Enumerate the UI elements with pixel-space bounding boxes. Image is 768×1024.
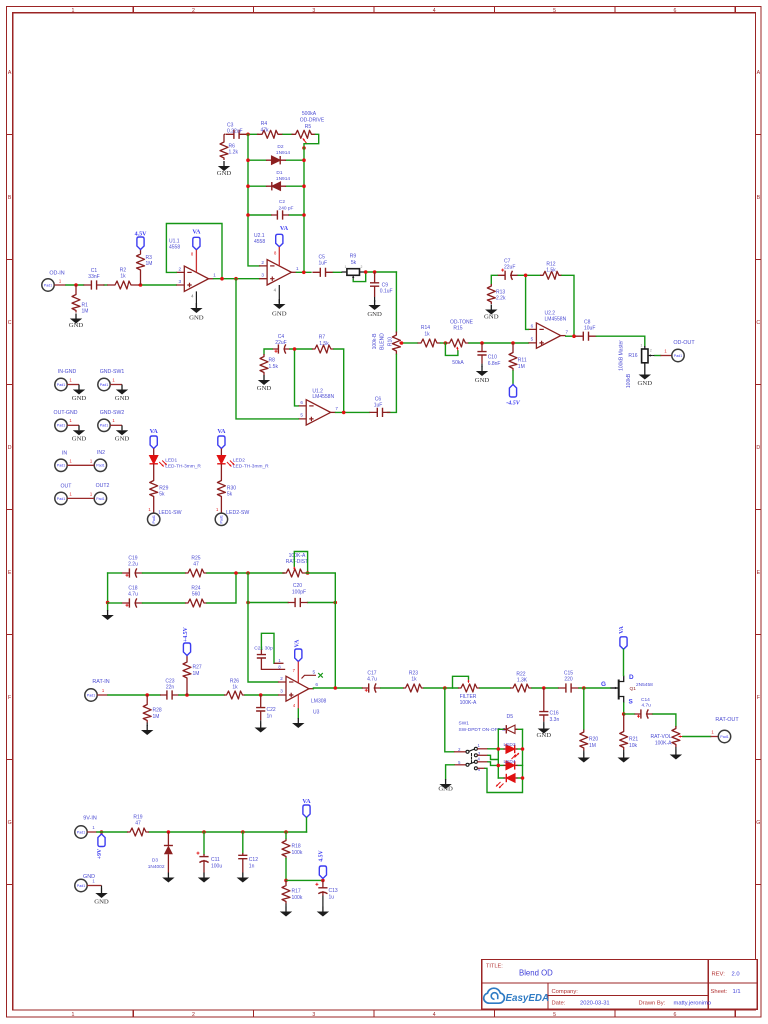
svg-text:Pad1: Pad1	[100, 424, 108, 428]
resistor R30	[217, 479, 236, 499]
wire U1.1 feedback	[166, 224, 222, 279]
svg-text:IN2: IN2	[97, 450, 105, 456]
svg-text:Sheet:: Sheet:	[711, 989, 728, 995]
ground below SW1	[438, 779, 453, 793]
resistor R18	[282, 832, 303, 859]
svg-text:OD-IN: OD-IN	[49, 271, 64, 277]
node junction C4-R7	[293, 347, 297, 351]
svg-text:6.8nF: 6.8nF	[488, 361, 501, 367]
svg-text:VA: VA	[280, 225, 289, 232]
svg-text:GND: GND	[217, 170, 232, 177]
svg-text:22uF: 22uF	[275, 340, 286, 346]
svg-text:C20: C20	[293, 583, 302, 589]
svg-text:5k: 5k	[159, 492, 165, 498]
svg-text:100K-A: 100K-A	[460, 700, 477, 706]
svg-text:C11: C11	[211, 857, 220, 863]
svg-text:2.0: 2.0	[732, 971, 740, 977]
svg-text:LED-TH-3mm_R: LED-TH-3mm_R	[165, 463, 201, 469]
node junction C22	[259, 693, 263, 697]
resistor R14	[418, 325, 441, 347]
ground below RAT-VOL	[670, 747, 682, 760]
svg-text:B: B	[8, 195, 12, 201]
op-amp U1.2	[298, 389, 338, 426]
svg-text:R11: R11	[518, 358, 527, 364]
svg-text:1.2k: 1.2k	[229, 150, 239, 156]
svg-text:1.5k: 1.5k	[546, 268, 556, 274]
svg-text:RAT-VOL: RAT-VOL	[650, 734, 671, 740]
svg-text:0.22uF: 0.22uF	[227, 129, 243, 135]
svg-text:GND: GND	[638, 380, 653, 387]
resistor R25	[185, 556, 207, 578]
wire RAT-VOL wiper to pad	[683, 729, 719, 736]
node junction LED5 row	[521, 776, 525, 780]
svg-text:5k: 5k	[351, 260, 357, 266]
node junctions D1 row	[246, 184, 306, 188]
ground for OUT-GND	[72, 425, 87, 442]
wire OD-IN to U1.1 pin3	[66, 284, 176, 286]
svg-text:1M: 1M	[153, 714, 160, 720]
ground pin U3	[292, 695, 304, 729]
wire D1 row	[248, 185, 304, 187]
svg-text:1N914: 1N914	[276, 176, 290, 182]
svg-text:100k: 100k	[292, 895, 303, 901]
potentiometer R5 OD-DRIVE	[292, 111, 325, 144]
capacitor C9	[370, 272, 393, 297]
svg-text:Blend OD: Blend OD	[519, 969, 553, 978]
svg-text:D: D	[756, 445, 760, 451]
power flag +9V	[97, 834, 105, 859]
wire R23 to FILTER	[424, 687, 458, 689]
svg-text:Pad1: Pad1	[220, 515, 224, 523]
resistor R8	[260, 354, 278, 375]
svg-text:C16: C16	[550, 711, 559, 717]
svg-text:1k: 1k	[411, 677, 417, 683]
ground pin U2.1	[272, 285, 287, 318]
wire C9 node down to R10	[395, 272, 397, 332]
ground below R21	[618, 750, 630, 763]
svg-text:C21 30p: C21 30p	[254, 645, 273, 651]
node junction R28	[145, 693, 149, 697]
wire source row	[624, 714, 676, 727]
wire R18 to divider node	[285, 859, 287, 881]
svg-text:220: 220	[564, 677, 573, 683]
power flag 4.5V mid	[319, 849, 327, 878]
svg-text:5: 5	[300, 412, 303, 417]
node junction R3	[139, 283, 143, 287]
svg-text:100k: 100k	[292, 850, 303, 856]
pad OD-OUT	[672, 340, 696, 362]
wire branch to U1.2 pin5	[236, 279, 298, 419]
ground pin U1.1	[189, 291, 204, 321]
svg-text:1M: 1M	[518, 364, 525, 370]
wire D2 row	[248, 159, 304, 161]
svg-text:Pad1: Pad1	[57, 497, 65, 501]
svg-text:5k: 5k	[227, 492, 233, 498]
svg-text:100kB: 100kB	[626, 373, 632, 388]
pad LED2-SW	[215, 510, 249, 526]
ground below C12	[237, 873, 249, 883]
wire pin3 jog	[477, 755, 498, 759]
svg-text:GND: GND	[115, 395, 130, 402]
svg-text:100u: 100u	[211, 863, 222, 869]
wire R16 wiper to OD-OUT	[655, 348, 672, 355]
potentiometer R10 BLEND	[372, 332, 404, 355]
svg-text:Pad1: Pad1	[57, 383, 65, 387]
svg-text:Drawn By:: Drawn By:	[639, 1000, 666, 1006]
capacitor C14	[635, 697, 653, 719]
resistor R28	[143, 695, 162, 723]
ground below R20	[578, 751, 590, 763]
svg-text:OUT: OUT	[61, 483, 73, 489]
svg-text:LED2: LED2	[233, 458, 245, 464]
resistor R20	[580, 730, 599, 751]
svg-text:3: 3	[261, 272, 264, 277]
svg-text:4.7u: 4.7u	[128, 591, 138, 597]
label SW1	[459, 721, 516, 733]
power flag 4.5V	[135, 232, 148, 250]
svg-text:2020-03-31: 2020-03-31	[580, 1000, 610, 1006]
svg-text:G: G	[601, 681, 606, 688]
svg-text:6: 6	[674, 1012, 677, 1018]
svg-text:5: 5	[553, 8, 556, 14]
svg-text:100kB Master: 100kB Master	[618, 340, 624, 371]
wire R5 wiper loop	[304, 134, 319, 148]
resistor R12	[540, 262, 562, 280]
svg-text:+4.5V: +4.5V	[183, 626, 189, 642]
svg-text:Pad1: Pad1	[87, 693, 95, 697]
pad IN	[55, 451, 73, 472]
svg-text:R27: R27	[193, 665, 202, 671]
svg-text:G: G	[756, 820, 760, 826]
ground below R1	[69, 314, 84, 330]
svg-text:LM4558N: LM4558N	[312, 394, 334, 400]
svg-text:1.5k: 1.5k	[319, 341, 329, 347]
node junction 4.5V node	[321, 879, 325, 883]
power flag VA for LED1	[150, 428, 159, 449]
svg-text:1/1: 1/1	[733, 989, 741, 995]
svg-text:100pF: 100pF	[292, 589, 306, 595]
svg-text:D: D	[629, 674, 634, 681]
resistor R29	[150, 479, 169, 499]
node junction C16	[542, 686, 546, 690]
wire VA riser	[306, 818, 308, 833]
svg-text:1k: 1k	[232, 685, 238, 691]
diode D3	[148, 832, 173, 873]
wire C20 row	[248, 602, 335, 604]
svg-text:OUT-GND: OUT-GND	[54, 410, 78, 416]
pad OD-IN	[42, 271, 66, 292]
node junction LED4 row	[497, 764, 501, 768]
svg-text:RAT-IN: RAT-IN	[92, 679, 109, 685]
svg-text:R28: R28	[153, 708, 162, 714]
svg-text:OUT2: OUT2	[96, 483, 110, 489]
node junction C10	[480, 341, 484, 345]
svg-text:7: 7	[566, 329, 569, 334]
svg-text:D: D	[8, 445, 12, 451]
svg-text:22n: 22n	[166, 684, 175, 690]
svg-text:Pad1: Pad1	[77, 884, 85, 888]
svg-text:R5: R5	[305, 124, 312, 130]
ground below R17	[280, 904, 292, 917]
svg-text:VA: VA	[294, 639, 300, 647]
node junction U2.2 out	[572, 334, 576, 338]
svg-text:6: 6	[531, 323, 534, 328]
capacitor C17	[362, 671, 381, 693]
pad OUT-GND	[54, 410, 79, 431]
svg-text:1n: 1n	[267, 713, 273, 719]
wire pin1 to LED3	[477, 748, 498, 750]
wire R9 wiper loop	[353, 272, 366, 282]
ground below C11	[198, 873, 210, 883]
ground below C13	[317, 896, 329, 917]
svg-text:Pad1: Pad1	[674, 354, 682, 358]
capacitor C19	[122, 556, 143, 578]
svg-text:7: 7	[335, 406, 338, 411]
svg-text:C13: C13	[329, 888, 338, 894]
power flag VA for U3	[293, 639, 302, 683]
svg-text:1N914: 1N914	[276, 150, 290, 156]
wire U1.2 pin6 riser	[295, 349, 299, 406]
power flag VA supply	[302, 798, 311, 818]
LED LED5	[496, 774, 523, 788]
svg-text:100K-A: 100K-A	[655, 740, 672, 746]
svg-text:4558: 4558	[254, 239, 265, 245]
wire RAT-IN to C23	[108, 694, 160, 696]
transistor Q1 2N5458	[601, 674, 653, 706]
svg-text:4.5V: 4.5V	[319, 849, 325, 861]
capacitor C20	[288, 583, 308, 607]
capacitor C16	[539, 688, 559, 723]
node junction R24 jog	[234, 571, 238, 575]
svg-text:Date:: Date:	[552, 1000, 566, 1006]
svg-text:D1: D1	[276, 170, 282, 176]
wire R15 wiper loop	[445, 343, 458, 355]
svg-text:R17: R17	[292, 889, 301, 895]
power flag +4.5V	[183, 626, 191, 655]
pad RAT-IN	[85, 679, 110, 701]
pad GND-SW2	[98, 410, 125, 431]
pad IN2	[90, 450, 107, 471]
svg-text:1M: 1M	[193, 671, 200, 677]
svg-text:4: 4	[433, 1012, 436, 1018]
svg-text:3: 3	[280, 689, 283, 694]
wire R24 jog up	[207, 573, 236, 603]
wire Q1 source down	[623, 703, 625, 714]
wire R14 to R15	[441, 342, 447, 344]
svg-text:47: 47	[135, 821, 141, 827]
svg-text:B: B	[757, 195, 761, 201]
svg-text:GND: GND	[367, 311, 382, 318]
svg-text:D2: D2	[277, 144, 283, 150]
capacitor C12	[238, 832, 258, 873]
svg-text:GND-SW2: GND-SW2	[100, 410, 125, 416]
node junction C11	[202, 830, 206, 834]
node junction C12	[241, 830, 245, 834]
svg-text:VA: VA	[619, 625, 625, 633]
svg-text:GND: GND	[257, 385, 272, 392]
svg-text:R9: R9	[350, 254, 357, 260]
wire FILTER to R22	[480, 687, 510, 689]
wire C19 to R25	[108, 572, 185, 574]
resistor R17	[282, 880, 303, 903]
svg-text:10k: 10k	[629, 743, 638, 749]
svg-text:IN-GND: IN-GND	[58, 369, 77, 375]
pad 9V-IN	[75, 816, 97, 839]
LED LED4	[498, 759, 522, 770]
pad OUT2	[90, 483, 110, 505]
LED LED3	[498, 742, 522, 759]
ground below C10	[475, 364, 490, 384]
svg-text:2N5458: 2N5458	[636, 682, 653, 688]
svg-text:E: E	[757, 570, 761, 576]
svg-text:1N4002: 1N4002	[148, 864, 165, 870]
svg-text:VA: VA	[192, 229, 201, 236]
node junction R11	[511, 341, 515, 345]
svg-text:GND: GND	[272, 311, 287, 318]
capacitor C11	[197, 832, 223, 873]
svg-text:1M: 1M	[146, 261, 153, 267]
power flag VA for U2.1	[274, 225, 289, 266]
svg-text:47k: 47k	[260, 127, 269, 133]
svg-text:2: 2	[361, 265, 363, 269]
wire C7 to R12	[518, 274, 540, 276]
svg-text:C12: C12	[249, 857, 258, 863]
pin 5 no-connect U3	[302, 673, 323, 679]
svg-text:LED3: LED3	[504, 742, 516, 748]
ground below C9	[367, 297, 382, 318]
power flag VA for LED2	[217, 428, 226, 449]
wire LED box right rail	[522, 729, 524, 778]
capacitor C1	[84, 268, 105, 290]
wire RAT fb left rail	[107, 573, 109, 610]
wire R30 to pad	[216, 499, 221, 514]
svg-text:C: C	[756, 320, 760, 326]
resistor R26	[224, 678, 245, 699]
wire OUT to OUT2	[67, 497, 94, 499]
node junction R15 left	[444, 341, 448, 345]
svg-text:matty.jeronimo: matty.jeronimo	[674, 1000, 712, 1006]
ground below C16	[537, 722, 552, 739]
wire LED box left rail	[497, 729, 499, 778]
wire R29 to pad	[148, 499, 153, 514]
wire C5 to R9	[333, 271, 341, 273]
wire 9V rail	[97, 831, 307, 833]
svg-text:R20: R20	[589, 737, 598, 743]
svg-text:GND: GND	[69, 322, 84, 329]
svg-text:2: 2	[192, 1012, 195, 1018]
LED LED1	[150, 449, 202, 479]
resistor R6	[220, 140, 238, 160]
svg-text:Pad1: Pad1	[96, 497, 104, 501]
svg-text:LM4558N: LM4558N	[545, 316, 567, 322]
wire C17 to R23	[381, 687, 403, 689]
svg-text:FILTER: FILTER	[460, 694, 477, 700]
node junction diode net top-left	[246, 133, 250, 137]
diode D5	[498, 714, 522, 734]
svg-text:2: 2	[280, 676, 283, 681]
svg-text:1: 1	[296, 266, 299, 271]
svg-text:1n: 1n	[249, 863, 255, 869]
wire R25 to RAT-DIST	[207, 572, 284, 574]
wire pin4 jog	[477, 762, 498, 766]
svg-text:VA: VA	[150, 428, 159, 435]
svg-text:GND: GND	[537, 732, 552, 739]
node junctions C2 row	[246, 213, 306, 217]
ground below D3	[162, 873, 174, 883]
svg-text:47: 47	[193, 561, 199, 567]
wire pin6 bottom loop	[477, 768, 522, 792]
pad OUT	[55, 483, 73, 504]
svg-text:9V-IN: 9V-IN	[83, 816, 97, 822]
wire RAT-DIST wiper loop	[294, 552, 307, 574]
svg-text:1: 1	[72, 8, 75, 14]
svg-text:Pad1: Pad1	[720, 735, 728, 739]
svg-text:SW1: SW1	[459, 721, 470, 727]
wire inv rail	[248, 573, 278, 682]
potentiometer R15 OD-TONE	[446, 319, 474, 366]
ground below R28	[141, 723, 153, 736]
svg-text:4.7u: 4.7u	[642, 703, 652, 709]
svg-text:2.2k: 2.2k	[496, 296, 506, 302]
node junction R1	[74, 283, 78, 287]
ground below R13	[484, 305, 499, 321]
ground for GND-SW2	[115, 425, 130, 442]
svg-text:LED1: LED1	[165, 458, 177, 464]
wire U1.1 output	[214, 278, 260, 280]
node junction divider	[284, 879, 288, 883]
wire R11 to -4.5V flag	[512, 371, 514, 385]
svg-text:560: 560	[192, 591, 201, 597]
svg-text:R10: R10	[387, 337, 393, 346]
wire U2.2 output	[566, 335, 576, 337]
capacitor C23	[160, 678, 179, 699]
power flag -4.5V	[506, 385, 520, 407]
svg-text:Pad1: Pad1	[57, 464, 65, 468]
svg-text:1.5k: 1.5k	[269, 364, 279, 370]
svg-text:Pad1: Pad1	[100, 383, 108, 387]
svg-text:6: 6	[300, 400, 303, 405]
svg-text:R8: R8	[269, 358, 276, 364]
svg-text:LED-TH-3mm_R: LED-TH-3mm_R	[233, 463, 269, 469]
resistor R24	[185, 586, 207, 608]
wire divider to C13	[286, 879, 323, 881]
wire R9 to C9 corner	[365, 271, 396, 273]
svg-text:2: 2	[192, 8, 195, 14]
svg-text:1.3K: 1.3K	[517, 678, 528, 684]
wire R12 to output	[562, 275, 574, 336]
wire R4 to R5	[283, 133, 292, 135]
svg-text:2: 2	[261, 260, 264, 265]
potentiometer RAT-DIST	[282, 553, 308, 577]
wire R26 to U3 pin3	[245, 694, 278, 696]
svg-text:1k: 1k	[120, 274, 126, 280]
wire diode net right rail	[303, 148, 305, 272]
resistor R19	[127, 815, 149, 837]
wire C4 to R8	[264, 349, 272, 354]
svg-text:REV:: REV:	[712, 971, 726, 977]
wire C21 top loop to pin1	[261, 633, 274, 663]
svg-text:22uF: 22uF	[504, 264, 515, 270]
wire filter node to SW1	[445, 688, 454, 752]
node junction R18	[284, 830, 288, 834]
svg-text:OD-TONE: OD-TONE	[450, 319, 474, 325]
wire R10 bottom to C6	[387, 355, 396, 413]
pad RAT-OUT	[715, 717, 739, 743]
node junction R10 wiper	[400, 341, 404, 345]
wire C3 to R4	[247, 133, 258, 135]
svg-text:D3: D3	[152, 858, 158, 864]
ground for GND-SW1	[115, 385, 130, 402]
